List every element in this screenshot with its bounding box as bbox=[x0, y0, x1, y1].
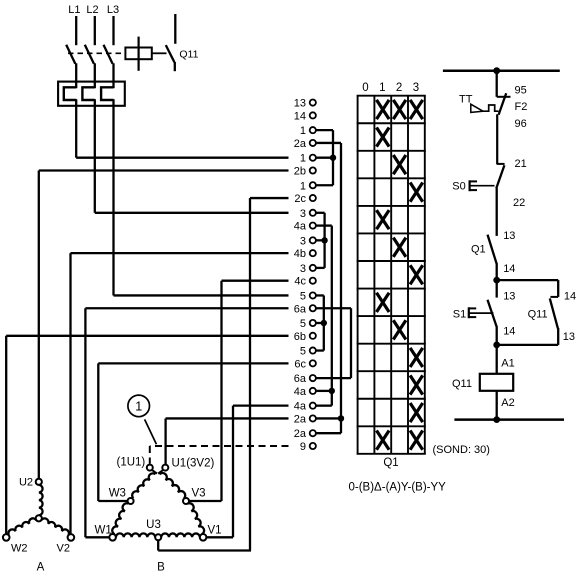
svg-text:V1: V1 bbox=[208, 524, 222, 536]
wire L1 incoming bbox=[75, 16, 77, 45]
wire terminal 6b to motor A W2 bbox=[6, 336, 288, 535]
svg-text:3: 3 bbox=[300, 235, 306, 247]
breaker Q11 4th pole terminal bbox=[174, 14, 176, 44]
motor B terminal U3 bbox=[155, 534, 161, 540]
motor B terminal V3 bbox=[183, 498, 189, 504]
wire L2 to terminal 3 bbox=[95, 105, 289, 213]
overload contact F2 arm bbox=[499, 93, 507, 115]
motor A star point bbox=[36, 515, 42, 521]
wire terminal 2a to motor B U1(3V2) bbox=[166, 418, 289, 464]
svg-text:U2: U2 bbox=[19, 476, 33, 488]
label W2 bbox=[11, 543, 28, 555]
junction dot 3 group bbox=[321, 237, 327, 243]
svg-text:L3: L3 bbox=[107, 4, 119, 16]
label Q1 under table bbox=[383, 457, 398, 469]
svg-text:2b: 2b bbox=[294, 166, 306, 178]
wire terminal 4a to motor B V1 bbox=[206, 406, 288, 538]
junction dot bottom rail bbox=[493, 416, 500, 423]
motor B right winding lower coil bbox=[188, 503, 204, 534]
control supply rail top bbox=[443, 69, 560, 72]
svg-text:96: 96 bbox=[515, 118, 527, 130]
svg-text:5: 5 bbox=[300, 318, 306, 330]
label S1 bbox=[453, 308, 466, 320]
svg-text:S1: S1 bbox=[453, 308, 466, 320]
svg-text:4a: 4a bbox=[294, 401, 307, 413]
label W1 bbox=[95, 524, 112, 536]
breaker Q11 4th pole lower stub bbox=[174, 62, 176, 71]
auxiliary contact Q11 arm bbox=[550, 298, 558, 328]
jumper terminals 6a-6a bbox=[316, 308, 351, 378]
svg-text:5: 5 bbox=[300, 290, 306, 302]
svg-text:9: 9 bbox=[300, 441, 306, 453]
overload trip symbol triangle bbox=[471, 104, 483, 112]
svg-text:6a: 6a bbox=[294, 373, 307, 385]
svg-text:W3: W3 bbox=[109, 487, 126, 499]
cam switch Q1 program table grid bbox=[357, 96, 426, 454]
motor B terminal V1 bbox=[200, 534, 207, 541]
svg-text:4b: 4b bbox=[294, 248, 306, 260]
svg-text:1: 1 bbox=[300, 153, 306, 165]
branch wire to Q11 contact bbox=[497, 280, 559, 297]
label A motor bbox=[37, 562, 45, 574]
start button S1 actuator bbox=[469, 307, 494, 318]
wire junction to S1 bbox=[496, 280, 498, 298]
svg-text:14: 14 bbox=[564, 291, 576, 303]
label switching sequence 0-(B)D-(A)Y-(B)-YY bbox=[349, 481, 447, 493]
label W3 bbox=[109, 487, 126, 499]
junction dot 5 group bbox=[321, 320, 327, 326]
overload trip linkage step bbox=[483, 105, 499, 111]
svg-text:Q11: Q11 bbox=[452, 378, 472, 390]
motor B bottom winding right coil bbox=[161, 533, 200, 537]
svg-text:W2: W2 bbox=[11, 543, 28, 555]
svg-text:A1: A1 bbox=[501, 358, 514, 370]
svg-text:2a: 2a bbox=[294, 413, 307, 425]
label TT bbox=[459, 93, 473, 105]
contactor coil Q11 bbox=[480, 374, 513, 391]
stop button S0 terminal tick bbox=[497, 163, 505, 165]
wire L2 to overload bbox=[94, 63, 96, 82]
label L3 bbox=[107, 4, 119, 16]
label U3 bbox=[146, 519, 161, 531]
svg-text:1: 1 bbox=[379, 82, 385, 94]
overload heater wire stubs phase 3 bbox=[112, 83, 114, 106]
wire terminal 4b to motor A V2 bbox=[71, 253, 289, 534]
jumper terminals 4a-4a-4a bbox=[316, 226, 332, 406]
svg-text:U3: U3 bbox=[146, 519, 161, 531]
start button S1 contact arm bbox=[488, 300, 497, 327]
mechanical coupling dashed link bbox=[68, 52, 125, 54]
label 96 bbox=[515, 118, 527, 130]
junction dot 4a group bbox=[329, 388, 335, 394]
svg-text:Q1: Q1 bbox=[383, 457, 398, 469]
annotation circled 1 bbox=[128, 395, 150, 417]
motor A terminal W2 bbox=[3, 534, 10, 541]
svg-text:2: 2 bbox=[396, 82, 402, 94]
motor B terminal U1(3V2) bbox=[162, 465, 168, 471]
svg-text:U1(3V2): U1(3V2) bbox=[172, 458, 215, 470]
wire L1 to overload bbox=[75, 63, 77, 82]
label (1U1) bbox=[117, 456, 146, 468]
svg-text:2c: 2c bbox=[294, 193, 306, 205]
wire L3 incoming bbox=[112, 16, 114, 45]
label V3 bbox=[192, 487, 206, 499]
cam switch contact closing X marks bbox=[377, 100, 423, 450]
jumper terminals 3-3-3 bbox=[316, 213, 325, 268]
motor B terminal W1 bbox=[109, 534, 116, 541]
wire rail to F2 bbox=[496, 71, 498, 97]
motor B right winding upper coil bbox=[159, 473, 185, 498]
contactor contact Q1 bbox=[488, 235, 497, 264]
svg-text:4a: 4a bbox=[294, 386, 307, 398]
overload contact F2 terminal tick bbox=[497, 96, 511, 98]
svg-text:W1: W1 bbox=[95, 524, 112, 536]
junction dot branch bottom bbox=[493, 342, 500, 349]
overload heater element phase 2 bbox=[82, 87, 94, 100]
wire terminal 6a to motor B W1 bbox=[85, 308, 288, 537]
motor B terminal W3 bbox=[128, 498, 134, 504]
breaker Q11 4th pole contact bbox=[166, 45, 175, 62]
svg-text:1: 1 bbox=[300, 125, 306, 137]
svg-text:3: 3 bbox=[300, 263, 306, 275]
svg-text:L2: L2 bbox=[86, 4, 98, 16]
label A2 bbox=[501, 397, 514, 409]
label A1 bbox=[501, 358, 514, 370]
motor B left winding lower coil bbox=[112, 503, 128, 534]
label Q11 breaker bbox=[179, 49, 198, 61]
wire F2 to S0 bbox=[496, 114, 498, 164]
link mechanism to 4th pole bbox=[152, 52, 167, 54]
breaker Q11 pole 3 contact bbox=[104, 45, 113, 64]
wire coil A2 to rail bbox=[496, 391, 498, 420]
label Q11 aux bbox=[528, 309, 548, 321]
svg-text:95: 95 bbox=[515, 85, 527, 97]
overload heater element phase 1 bbox=[64, 87, 76, 100]
breaker Q11 operating mechanism box bbox=[125, 48, 151, 60]
svg-text:0: 0 bbox=[362, 82, 368, 94]
wire S0 to Q1 contact bbox=[496, 188, 498, 236]
stop button S0 actuator bbox=[470, 180, 495, 191]
svg-text:1: 1 bbox=[135, 399, 142, 413]
breaker Q11 pole 2 contact bbox=[85, 45, 94, 64]
dashed wire terminal 9 to motor B (1U1) bbox=[150, 446, 289, 464]
svg-text:0-(B)Δ-(A)Y-(B)-YY: 0-(B)Δ-(A)Y-(B)-YY bbox=[349, 481, 447, 493]
label 14 Q1 bbox=[503, 263, 515, 275]
label U1(3V2) bbox=[172, 458, 215, 470]
wire terminal 2c to motor B U3 bbox=[158, 198, 288, 550]
svg-text:A: A bbox=[37, 562, 45, 574]
breaker Q11 mechanism vertical bar bbox=[138, 37, 140, 71]
svg-text:21: 21 bbox=[515, 158, 527, 170]
label U2 bbox=[19, 476, 33, 488]
svg-text:13: 13 bbox=[294, 98, 306, 110]
svg-text:(SOND: 30): (SOND: 30) bbox=[433, 444, 490, 456]
svg-text:L1: L1 bbox=[68, 4, 80, 16]
svg-text:(1U1): (1U1) bbox=[117, 456, 146, 468]
svg-text:22: 22 bbox=[513, 197, 525, 209]
wire terminal 2b to motor A U2 bbox=[39, 171, 289, 479]
svg-text:14: 14 bbox=[294, 110, 306, 122]
svg-text:6b: 6b bbox=[294, 331, 306, 343]
overload heater element phase 3 bbox=[101, 87, 113, 100]
wire terminal 6c to motor B W3 bbox=[98, 363, 288, 501]
label F2 bbox=[515, 101, 528, 113]
label Q1 contact bbox=[471, 243, 486, 255]
label B motor bbox=[157, 562, 165, 574]
svg-text:6c: 6c bbox=[294, 358, 306, 370]
motor B terminal 1U1 bbox=[147, 465, 153, 471]
svg-text:B: B bbox=[157, 562, 165, 574]
stop button S0 contact arm bbox=[496, 165, 504, 188]
svg-text:V3: V3 bbox=[192, 487, 206, 499]
svg-text:6a: 6a bbox=[294, 303, 307, 315]
control supply rail bottom bbox=[454, 418, 564, 421]
svg-text:Q11: Q11 bbox=[528, 309, 548, 321]
cam switch header 0 1 2 3 bbox=[362, 82, 419, 94]
wire L3 to overload bbox=[112, 63, 114, 82]
annotation leader line bbox=[145, 419, 157, 444]
motor B left winding upper coil bbox=[132, 473, 155, 498]
label V1 bbox=[208, 524, 222, 536]
label 14 S1 bbox=[503, 326, 515, 338]
motor B apex links bbox=[152, 470, 163, 474]
label (SOND: 30) bbox=[433, 444, 490, 456]
svg-text:S0: S0 bbox=[452, 181, 465, 193]
svg-text:13: 13 bbox=[563, 331, 575, 343]
svg-text:4a: 4a bbox=[294, 221, 307, 233]
label V2 bbox=[57, 543, 70, 555]
svg-text:3: 3 bbox=[300, 208, 306, 220]
svg-text:F2: F2 bbox=[515, 101, 528, 113]
junction dot 2a group bbox=[338, 415, 344, 421]
svg-text:13: 13 bbox=[503, 291, 515, 303]
overload relay F2 box bbox=[58, 82, 125, 106]
svg-text:13: 13 bbox=[503, 230, 515, 242]
label L1 bbox=[68, 4, 80, 16]
wire L2 incoming bbox=[94, 16, 96, 45]
svg-text:2a: 2a bbox=[294, 138, 307, 150]
motor B bottom winding left coil bbox=[116, 533, 155, 537]
svg-text:2a: 2a bbox=[294, 428, 307, 440]
svg-text:14: 14 bbox=[503, 263, 515, 275]
wire Q11 contact to rejoin bbox=[497, 328, 559, 345]
auxiliary contact Q11 tick bbox=[550, 296, 558, 298]
junction dot top rail bbox=[493, 67, 500, 74]
svg-text:V2: V2 bbox=[57, 543, 70, 555]
wire L3 to terminal 5 bbox=[114, 105, 289, 296]
wire L1 to terminal 1 bbox=[76, 105, 288, 158]
svg-text:5: 5 bbox=[300, 346, 306, 358]
motor A winding to W2 coil bbox=[8, 518, 36, 535]
motor A winding to V2 coil bbox=[41, 518, 69, 535]
label 95 bbox=[515, 85, 527, 97]
svg-text:Q1: Q1 bbox=[471, 243, 486, 255]
wire terminal 4c to motor B V3 bbox=[189, 281, 289, 501]
jumper terminals 2a-2a-2a bbox=[316, 143, 341, 433]
label Q11 coil bbox=[452, 378, 472, 390]
motor A winding U2 coil bbox=[39, 485, 43, 515]
label 21 bbox=[515, 158, 527, 170]
svg-text:1: 1 bbox=[300, 180, 306, 192]
label 22 bbox=[513, 197, 525, 209]
jumper terminals 5-5-5 bbox=[316, 295, 324, 350]
svg-text:Q11: Q11 bbox=[179, 49, 198, 61]
label S0 bbox=[452, 181, 465, 193]
svg-text:14: 14 bbox=[503, 326, 515, 338]
label 14 right branch bbox=[564, 291, 576, 303]
wire S1 to junction bottom bbox=[496, 326, 498, 345]
terminal strip circles and labels bbox=[294, 98, 316, 453]
junction dot 1 group bbox=[330, 155, 336, 161]
wire junction to coil A1 bbox=[496, 345, 498, 374]
overload heater wire stubs phase 1 bbox=[75, 83, 77, 106]
svg-text:4c: 4c bbox=[294, 276, 306, 288]
wire Q1 to junction bbox=[496, 263, 498, 280]
label 13 Q1 bbox=[503, 230, 515, 242]
jumper terminals 1-1-1 bbox=[316, 130, 333, 185]
svg-text:3: 3 bbox=[413, 82, 419, 94]
overload heater wire stubs phase 2 bbox=[94, 83, 96, 106]
svg-text:A2: A2 bbox=[501, 397, 514, 409]
junction dot branch top bbox=[493, 277, 500, 284]
label L2 bbox=[86, 4, 98, 16]
breaker Q11 pole 1 contact bbox=[66, 45, 75, 64]
label 13 S1 bbox=[503, 291, 515, 303]
motor A terminal V2 bbox=[68, 534, 75, 541]
motor A terminal U2 bbox=[36, 479, 42, 485]
label 13 right branch bbox=[563, 331, 575, 343]
